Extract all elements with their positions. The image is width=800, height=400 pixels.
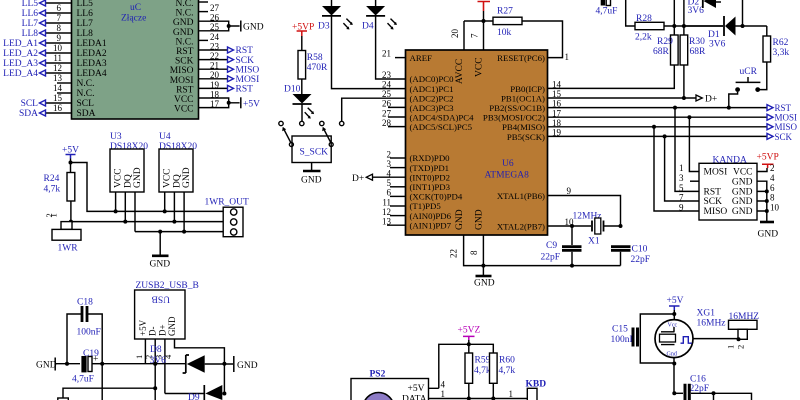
connector ZUSB2 USB B body bbox=[135, 281, 199, 339]
wire pin5 LL5 bbox=[22, 0, 72, 9]
svg-text:DQ: DQ bbox=[172, 174, 182, 188]
svg-text:PB1(OC1A): PB1(OC1A) bbox=[501, 93, 545, 103]
capacitor C19 polarized bbox=[72, 349, 102, 385]
capacitor 4,7uF top bbox=[596, 0, 618, 17]
svg-text:27: 27 bbox=[210, 3, 220, 13]
svg-text:20: 20 bbox=[210, 70, 220, 80]
svg-text:LL7: LL7 bbox=[22, 19, 39, 29]
svg-text:26: 26 bbox=[382, 99, 392, 109]
wire pin19 RST bbox=[199, 80, 254, 95]
U6 left pin names bbox=[410, 53, 475, 231]
svg-text:(ADC2)PC2: (ADC2)PC2 bbox=[410, 93, 454, 103]
pushbutton uCR bbox=[729, 67, 761, 108]
svg-text:1: 1 bbox=[509, 389, 514, 399]
svg-text:(ADC3)PC3: (ADC3)PC3 bbox=[410, 103, 455, 113]
connector PS2 body bbox=[351, 370, 429, 400]
svg-text:XTAL2(PB7): XTAL2(PB7) bbox=[497, 221, 545, 231]
wire pin26 pin25 GND pair bbox=[199, 13, 240, 33]
mcu U6 ATMEGA8 body bbox=[406, 50, 548, 235]
svg-text:R29: R29 bbox=[657, 37, 673, 47]
wire pin17 PB3 MOSI net bbox=[548, 108, 798, 122]
+5VZ supply symbol bbox=[458, 326, 481, 345]
svg-text:10k: 10k bbox=[497, 28, 512, 38]
svg-text:25: 25 bbox=[210, 22, 220, 32]
svg-text:4,7k: 4,7k bbox=[44, 185, 61, 195]
connector 1WR_OUT bbox=[205, 198, 250, 237]
svg-text:RST: RST bbox=[236, 85, 254, 95]
svg-text:21: 21 bbox=[382, 49, 391, 59]
svg-text:GND: GND bbox=[167, 316, 177, 336]
U6 GND pins 22 and 8 bbox=[449, 235, 621, 268]
svg-text:C16: C16 bbox=[690, 375, 706, 385]
svg-text:5: 5 bbox=[679, 183, 684, 193]
svg-text:(RXD)PD0: (RXD)PD0 bbox=[410, 153, 451, 163]
svg-text:D10: D10 bbox=[284, 85, 301, 95]
svg-text:22pF: 22pF bbox=[690, 384, 710, 394]
uC Zlacze left pin names bbox=[77, 0, 107, 119]
wire pin15 PB1 D+ bbox=[548, 89, 718, 104]
svg-text:C18: C18 bbox=[77, 298, 93, 308]
wire pin13 stub bbox=[53, 73, 72, 83]
svg-text:DATA: DATA bbox=[402, 395, 427, 400]
svg-text:XG1: XG1 bbox=[697, 309, 716, 319]
svg-text:R30: R30 bbox=[689, 37, 705, 47]
+5V supply symbol at pin17 bbox=[241, 97, 260, 109]
svg-text:R58: R58 bbox=[307, 53, 323, 63]
svg-text:20: 20 bbox=[450, 29, 460, 39]
svg-text:3V6: 3V6 bbox=[709, 40, 726, 50]
svg-text:VCC: VCC bbox=[114, 168, 124, 188]
U3 pin wires bbox=[114, 192, 135, 232]
svg-text:D-: D- bbox=[148, 327, 158, 337]
node D+ arrow to pin4 bbox=[352, 174, 406, 184]
resistor R58 bbox=[298, 51, 328, 80]
svg-text:100nF: 100nF bbox=[77, 328, 101, 338]
svg-text:PB4(MISO): PB4(MISO) bbox=[502, 122, 545, 132]
svg-text:2: 2 bbox=[736, 345, 746, 349]
svg-text:RST: RST bbox=[176, 47, 194, 57]
svg-text:MISO: MISO bbox=[704, 207, 728, 217]
ground symbol at pin25 bbox=[241, 21, 264, 33]
svg-text:MISO: MISO bbox=[170, 66, 194, 76]
wire pin20 MOSI bbox=[199, 70, 260, 85]
sensor U3 DS18X20 bbox=[110, 132, 148, 192]
svg-text:LED_A1: LED_A1 bbox=[3, 39, 38, 49]
+5V supply symbol above U6 VCC bbox=[478, 2, 491, 51]
svg-text:(ADC1)PC1: (ADC1)PC1 bbox=[410, 84, 454, 94]
svg-text:22: 22 bbox=[449, 249, 459, 258]
svg-text:12: 12 bbox=[53, 63, 62, 73]
wire pin9 XTAL1 bbox=[548, 186, 621, 226]
wire pin12 LED_A4 bbox=[3, 63, 71, 79]
svg-text:R60: R60 bbox=[499, 356, 515, 366]
capacitor C10 bbox=[611, 245, 650, 266]
wire pin23 RST bbox=[199, 41, 254, 56]
svg-text:3: 3 bbox=[387, 159, 392, 169]
svg-text:11: 11 bbox=[382, 197, 391, 207]
svg-text:SCL: SCL bbox=[77, 99, 95, 109]
svg-text:D1: D1 bbox=[708, 30, 720, 40]
svg-text:3,3k: 3,3k bbox=[773, 48, 790, 58]
U6 left pin numbers and stubs bbox=[382, 49, 406, 227]
svg-text:Gnd: Gnd bbox=[667, 352, 677, 358]
svg-text:470R: 470R bbox=[307, 63, 328, 73]
wire pin27 stub bbox=[199, 3, 220, 13]
svg-text:9: 9 bbox=[567, 186, 572, 196]
wire pin18 PB4 MISO net bbox=[548, 118, 798, 132]
wire D3 to pin24 bbox=[332, 16, 406, 89]
svg-text:N.C.: N.C. bbox=[77, 89, 95, 99]
connector 1WR bbox=[44, 213, 81, 253]
resistor R59 bbox=[465, 344, 491, 398]
svg-text:1: 1 bbox=[726, 345, 736, 349]
svg-text:D3: D3 bbox=[318, 22, 330, 32]
ZUSB2 pin wires bbox=[134, 339, 227, 400]
svg-text:DQ: DQ bbox=[123, 174, 133, 188]
svg-text:4: 4 bbox=[770, 173, 775, 183]
svg-text:D+: D+ bbox=[705, 95, 717, 105]
wire XG1 to 16MHZ bbox=[693, 337, 741, 341]
svg-text:23: 23 bbox=[382, 70, 392, 80]
svg-text:8: 8 bbox=[57, 23, 62, 33]
svg-text:SCK: SCK bbox=[175, 57, 194, 67]
svg-text:15: 15 bbox=[552, 89, 562, 99]
wire DQ row bbox=[71, 221, 223, 223]
svg-text:SDA: SDA bbox=[77, 109, 96, 119]
wire lower branch row bbox=[63, 386, 157, 398]
resistor R30 bbox=[680, 0, 706, 98]
svg-text:C10: C10 bbox=[632, 245, 648, 255]
resistor R24 bbox=[44, 173, 75, 224]
svg-text:LL8: LL8 bbox=[22, 29, 39, 39]
zener diode D1 bbox=[684, 0, 767, 50]
wire pin14 PB0 to R29 bbox=[548, 65, 675, 90]
wire pin21 MISO bbox=[199, 61, 260, 76]
svg-text:AVCC: AVCC bbox=[455, 59, 465, 84]
wire pin9 LED_A1 bbox=[3, 33, 71, 49]
svg-text:uC: uC bbox=[130, 3, 141, 13]
svg-text:LL5: LL5 bbox=[77, 0, 94, 9]
svg-text:(INT0)PD2: (INT0)PD2 bbox=[410, 172, 451, 182]
svg-text:7: 7 bbox=[679, 193, 684, 203]
svg-text:C9: C9 bbox=[546, 241, 557, 251]
svg-text:PB5(SCK): PB5(SCK) bbox=[507, 132, 545, 142]
svg-text:ATMEGA8: ATMEGA8 bbox=[485, 171, 530, 181]
svg-text:100nF: 100nF bbox=[611, 335, 635, 345]
svg-text:MISO: MISO bbox=[236, 65, 260, 75]
svg-text:MOSI: MOSI bbox=[775, 113, 798, 123]
wire R58 to D10 bbox=[301, 79, 303, 94]
wire pin14 stub bbox=[53, 83, 72, 93]
svg-text:AREF: AREF bbox=[410, 53, 433, 63]
svg-text:USB: USB bbox=[152, 294, 170, 304]
LED D3 bbox=[318, 0, 353, 32]
svg-text:1: 1 bbox=[441, 389, 446, 399]
+5VP supply symbol above R58 bbox=[292, 23, 314, 51]
svg-text:LEDA2: LEDA2 bbox=[77, 49, 107, 59]
svg-text:19: 19 bbox=[552, 128, 562, 138]
svg-text:9: 9 bbox=[679, 202, 684, 212]
svg-text:LEDA4: LEDA4 bbox=[77, 69, 107, 79]
svg-text:N.C.: N.C. bbox=[176, 37, 194, 47]
svg-text:4: 4 bbox=[387, 169, 392, 179]
svg-text:+5V: +5V bbox=[408, 384, 425, 394]
svg-text:LEDA1: LEDA1 bbox=[77, 39, 107, 49]
zener diode D8 bbox=[150, 345, 234, 373]
svg-text:D+: D+ bbox=[157, 324, 167, 336]
svg-text:1WR_OUT: 1WR_OUT bbox=[205, 198, 250, 208]
svg-text:uCR: uCR bbox=[740, 67, 758, 77]
svg-text:2: 2 bbox=[770, 163, 775, 173]
svg-text:(ADC4/SDA)PC4: (ADC4/SDA)PC4 bbox=[410, 113, 475, 123]
crystal X1 12MHz bbox=[573, 212, 623, 247]
svg-text:GND: GND bbox=[732, 207, 753, 217]
svg-text:C15: C15 bbox=[612, 325, 628, 335]
resistor R29 bbox=[653, 0, 678, 65]
svg-text:VCC: VCC bbox=[174, 95, 194, 105]
svg-text:25: 25 bbox=[382, 89, 392, 99]
capacitor C16 bbox=[674, 375, 751, 400]
wire pin24 stub bbox=[199, 32, 220, 42]
svg-text:GND: GND bbox=[173, 18, 194, 28]
svg-text:4,7k: 4,7k bbox=[474, 366, 491, 376]
svg-text:15: 15 bbox=[53, 93, 63, 103]
wire pin10 XTAL2 bbox=[548, 217, 592, 228]
svg-text:22pF: 22pF bbox=[631, 255, 651, 265]
wire pin15 SCL bbox=[21, 93, 72, 109]
svg-text:SCK: SCK bbox=[704, 197, 723, 207]
svg-text:14: 14 bbox=[552, 80, 562, 90]
svg-text:2: 2 bbox=[387, 149, 392, 159]
svg-text:GND: GND bbox=[243, 23, 264, 33]
svg-text:26: 26 bbox=[210, 13, 220, 23]
svg-text:MISO: MISO bbox=[775, 122, 798, 132]
wire +5V to VCC row bbox=[71, 163, 224, 212]
wire D10 to switch contact bbox=[301, 104, 303, 121]
svg-text:+5V: +5V bbox=[667, 296, 684, 306]
svg-text:GND: GND bbox=[237, 361, 258, 371]
svg-text:18: 18 bbox=[552, 118, 562, 128]
wire pin22 SCK bbox=[199, 51, 255, 66]
oscillator XG1 bbox=[655, 309, 726, 358]
resistor R28 bbox=[626, 0, 723, 43]
svg-text:S_SCK: S_SCK bbox=[300, 148, 329, 158]
svg-text:GND: GND bbox=[758, 230, 779, 240]
wire R27 to RESET pin1 bbox=[522, 21, 569, 62]
connector KANDA body bbox=[699, 156, 757, 221]
svg-text:(TXD)PD1: (TXD)PD1 bbox=[410, 163, 450, 173]
+5VP supply symbol at KANDA pin2 bbox=[757, 153, 779, 169]
wire pin18 pin17 +5V pair bbox=[199, 89, 240, 109]
svg-text:R24: R24 bbox=[44, 174, 60, 184]
svg-text:U6: U6 bbox=[502, 159, 514, 169]
wire AVCC pin20 bbox=[450, 21, 464, 50]
connector tab bottom left bbox=[58, 398, 69, 400]
U4 pin wires bbox=[163, 192, 186, 234]
connector uC Zlacze body bbox=[72, 0, 199, 119]
svg-text:18: 18 bbox=[210, 89, 220, 99]
svg-text:GND: GND bbox=[475, 209, 485, 230]
LED D4 bbox=[362, 0, 397, 32]
svg-text:10: 10 bbox=[53, 43, 63, 53]
svg-text:GND: GND bbox=[182, 167, 192, 188]
wire pin7 LL7 bbox=[22, 13, 72, 29]
svg-text:R59: R59 bbox=[475, 356, 491, 366]
svg-text:R28: R28 bbox=[636, 14, 652, 24]
ground symbol below S_SCK bbox=[301, 163, 322, 186]
svg-text:U3: U3 bbox=[110, 132, 122, 142]
wire pin19 PB5 SCK net bbox=[548, 128, 793, 142]
svg-text:+5VP: +5VP bbox=[757, 153, 779, 163]
svg-text:+5VZ: +5VZ bbox=[458, 326, 481, 336]
svg-text:LL6: LL6 bbox=[22, 9, 39, 19]
svg-text:1WR: 1WR bbox=[58, 244, 79, 254]
ground symbol below GND row bbox=[150, 232, 171, 270]
svg-text:22: 22 bbox=[210, 51, 219, 61]
svg-text:22pF: 22pF bbox=[541, 253, 561, 263]
svg-text:RESET(PC6): RESET(PC6) bbox=[497, 53, 545, 63]
svg-text:GND: GND bbox=[732, 188, 753, 198]
svg-text:12MHz: 12MHz bbox=[573, 212, 602, 222]
wire DATA row to KBD bbox=[429, 389, 528, 400]
wire pin8 LL8 bbox=[22, 23, 72, 39]
svg-text:X1: X1 bbox=[588, 237, 600, 247]
svg-text:VCC: VCC bbox=[733, 168, 753, 178]
svg-text:R27: R27 bbox=[497, 7, 513, 17]
svg-text:N.C.: N.C. bbox=[176, 9, 194, 19]
svg-text:GND: GND bbox=[173, 28, 194, 38]
svg-text:LEDA3: LEDA3 bbox=[77, 59, 107, 69]
svg-text:1: 1 bbox=[49, 213, 59, 217]
svg-text:21: 21 bbox=[210, 61, 219, 71]
svg-text:VCC: VCC bbox=[163, 168, 173, 188]
+5V supply symbol above R24 bbox=[62, 146, 79, 173]
svg-text:1: 1 bbox=[134, 355, 144, 359]
svg-text:PB2(SS/OC1B): PB2(SS/OC1B) bbox=[489, 103, 545, 113]
svg-text:4,7uF: 4,7uF bbox=[72, 375, 94, 385]
svg-text:27: 27 bbox=[382, 108, 392, 118]
connector KBD bbox=[526, 380, 547, 400]
zener diode D9 bbox=[165, 385, 225, 400]
svg-text:(AIN1)PD7: (AIN1)PD7 bbox=[410, 220, 452, 230]
svg-text:24: 24 bbox=[210, 32, 220, 42]
wire pin16 PB2 RST net bbox=[548, 99, 792, 113]
svg-text:7: 7 bbox=[57, 13, 62, 23]
svg-text:16: 16 bbox=[53, 103, 63, 113]
svg-text:7: 7 bbox=[470, 33, 480, 38]
svg-text:(T1)PD5: (T1)PD5 bbox=[410, 201, 442, 211]
resistor R62 bbox=[758, 26, 790, 90]
svg-text:16: 16 bbox=[552, 99, 562, 109]
svg-text:(AIN0)PD6: (AIN0)PD6 bbox=[410, 211, 452, 221]
svg-text:LL6: LL6 bbox=[77, 9, 94, 19]
sensor U4 DS18X20 bbox=[159, 132, 197, 192]
svg-text:RST: RST bbox=[236, 46, 254, 56]
wire pin6 LL6 bbox=[22, 3, 72, 19]
+5V supply symbol above XG1 bbox=[667, 296, 684, 320]
capacitor C9 bbox=[541, 226, 582, 268]
wire pin11 LED_A3 bbox=[3, 53, 71, 69]
svg-text:17: 17 bbox=[552, 108, 562, 118]
svg-text:GND: GND bbox=[301, 176, 322, 186]
svg-text:6: 6 bbox=[387, 188, 392, 198]
ground symbol left of C19 bbox=[36, 358, 80, 371]
KANDA right pin wires bbox=[757, 163, 780, 222]
wire GND row bbox=[135, 230, 223, 234]
svg-text:GND: GND bbox=[150, 260, 171, 270]
svg-text:5: 5 bbox=[387, 178, 392, 188]
svg-text:GND: GND bbox=[36, 361, 57, 371]
ground symbol below U6 bbox=[474, 266, 495, 289]
U6 right pin names bbox=[483, 53, 545, 232]
wire C19 node to USB pins bbox=[102, 362, 186, 366]
svg-text:14: 14 bbox=[53, 83, 63, 93]
svg-text:RST: RST bbox=[176, 85, 194, 95]
svg-text:GND: GND bbox=[732, 197, 753, 207]
svg-text:N.C.: N.C. bbox=[77, 79, 95, 89]
svg-text:D4: D4 bbox=[362, 22, 374, 32]
svg-text:RST: RST bbox=[704, 188, 722, 198]
wire +5VZ row bbox=[429, 342, 494, 389]
wire pin16 SDA bbox=[19, 103, 72, 119]
svg-text:VCC: VCC bbox=[475, 57, 485, 77]
svg-text:D+: D+ bbox=[352, 174, 364, 184]
svg-text:VCC: VCC bbox=[174, 105, 194, 115]
wire pin25 PC2 to switch contact bbox=[342, 98, 406, 121]
svg-text:(ADC0)PC0: (ADC0)PC0 bbox=[410, 74, 455, 84]
svg-text:LL5: LL5 bbox=[22, 0, 39, 9]
svg-text:LED_A4: LED_A4 bbox=[3, 69, 38, 79]
svg-text:GND: GND bbox=[455, 209, 465, 230]
svg-text:XTAL1(PB6): XTAL1(PB6) bbox=[497, 191, 545, 201]
svg-text:2,2k: 2,2k bbox=[635, 33, 652, 43]
svg-text:D9: D9 bbox=[188, 393, 200, 400]
svg-text:16MHz: 16MHz bbox=[697, 319, 726, 329]
svg-text:3V6: 3V6 bbox=[688, 6, 705, 16]
svg-text:PB0(ICP): PB0(ICP) bbox=[510, 84, 545, 94]
svg-text:6: 6 bbox=[770, 183, 775, 193]
svg-text:68R: 68R bbox=[653, 47, 670, 57]
svg-text:+5V: +5V bbox=[243, 99, 260, 109]
svg-text:9: 9 bbox=[57, 33, 62, 43]
svg-text:10: 10 bbox=[770, 202, 780, 212]
svg-text:13: 13 bbox=[53, 73, 63, 83]
svg-text:PB3(MOSI/OC2): PB3(MOSI/OC2) bbox=[483, 113, 545, 123]
svg-text:24: 24 bbox=[382, 80, 392, 90]
zener diode D2 bbox=[688, 0, 722, 16]
svg-text:19: 19 bbox=[210, 80, 220, 90]
svg-text:SDA: SDA bbox=[19, 109, 38, 119]
svg-text:8: 8 bbox=[469, 250, 479, 255]
svg-text:(ADC5/SCL)PC5: (ADC5/SCL)PC5 bbox=[410, 122, 473, 132]
svg-text:GND: GND bbox=[732, 177, 753, 187]
svg-text:+5V: +5V bbox=[138, 319, 148, 336]
resistor R27 bbox=[464, 7, 522, 39]
svg-text:1: 1 bbox=[679, 163, 684, 173]
svg-text:3V6: 3V6 bbox=[150, 356, 167, 366]
connector 16MHZ bbox=[726, 312, 760, 349]
svg-text:SCL: SCL bbox=[21, 99, 39, 109]
svg-text:1: 1 bbox=[565, 52, 570, 62]
wire pin10 LED_A2 bbox=[3, 43, 71, 59]
LED D10 bbox=[284, 85, 314, 119]
svg-text:17: 17 bbox=[210, 99, 220, 109]
svg-text:LED_A2: LED_A2 bbox=[3, 49, 38, 59]
svg-text:4: 4 bbox=[441, 379, 446, 389]
svg-text:GND: GND bbox=[474, 279, 495, 289]
svg-text:28: 28 bbox=[382, 118, 392, 128]
svg-text:6: 6 bbox=[57, 3, 62, 13]
